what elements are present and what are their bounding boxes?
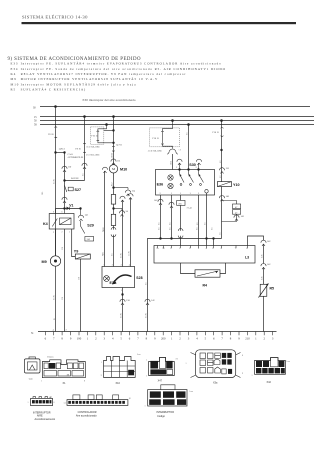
- control unit E30: [102, 265, 143, 293]
- svg-text:1 N: 1 N: [78, 277, 80, 281]
- svg-text:5: 5: [121, 290, 122, 292]
- svg-text:34: 34: [126, 211, 129, 213]
- svg-text:R5: R5: [270, 287, 275, 291]
- svg-text:5: 5: [69, 232, 70, 234]
- svg-text:M9: M9: [11, 77, 17, 81]
- svg-text:Y9: Y9: [74, 250, 79, 254]
- svg-text:7: 7: [137, 336, 139, 340]
- svg-text:Y10: Y10: [233, 183, 240, 187]
- legend connector: interruptor codigo: [145, 385, 193, 418]
- svg-text:R5: R5: [11, 88, 17, 92]
- junction on bus 58 (fuse box A): [105, 123, 108, 126]
- wire M9 to ground: [55, 266, 57, 331]
- connector 142 lower right: [261, 264, 271, 285]
- svg-text:131: 131: [117, 161, 121, 163]
- svg-text:2: 2: [264, 336, 266, 340]
- svg-text:30: 30: [33, 106, 36, 109]
- svg-text:134: 134: [132, 191, 136, 193]
- connector 140: [219, 187, 229, 239]
- svg-text:0.5: 0.5: [197, 228, 199, 231]
- svg-text:3: 3: [198, 248, 199, 250]
- svg-text:5-xx: 5-xx: [137, 354, 141, 356]
- svg-text:F10 15: F10 15: [213, 132, 220, 134]
- svg-text:M10: M10: [120, 168, 127, 172]
- svg-text:6: 6: [62, 212, 63, 214]
- svg-text:1: 1: [186, 363, 187, 365]
- wire x=130.5 to E30 with connector: [128, 194, 133, 267]
- svg-text:16: 16: [129, 398, 131, 400]
- motor M10: [109, 165, 127, 173]
- wire E36 to L3 (x=171.5) with connector: [169, 195, 174, 239]
- junction on bus 30: [54, 105, 57, 108]
- svg-text:7A: 7A: [156, 247, 159, 250]
- wire R5 to ground: [263, 296, 265, 331]
- svg-text:E33: E33: [11, 62, 19, 66]
- svg-text:16L: 16L: [42, 191, 44, 195]
- svg-text:3: 3: [272, 336, 274, 340]
- connector X10: [101, 354, 141, 385]
- svg-text:K4: K4: [11, 72, 17, 76]
- solenoid Y9: [74, 250, 91, 260]
- svg-text:L3: L3: [245, 256, 249, 260]
- svg-text:X3a: X3a: [213, 382, 218, 385]
- wire x=180.5 through ref box 205: [177, 195, 193, 246]
- resistor R4 loop under L3: [181, 263, 226, 288]
- svg-text:1: 1: [255, 336, 257, 340]
- svg-text:R12: R12: [111, 183, 113, 186]
- wire track x=55.5 upper: [55, 107, 57, 128]
- blower switch E36: [156, 168, 215, 195]
- svg-text:2: 2: [160, 193, 162, 195]
- svg-text:X10: X10: [116, 382, 121, 385]
- svg-text:142: 142: [241, 216, 245, 218]
- wire K4 mid to ground: [64, 229, 66, 332]
- connector 142 upper right: [261, 240, 271, 263]
- svg-text:5-xx: 5-xx: [189, 391, 193, 393]
- svg-text:7M10: 7M10: [103, 227, 105, 232]
- svg-text:Interruptor FE. Sonda de tempe: Interruptor FE. Sonda de temperatura del…: [21, 67, 226, 71]
- svg-text:1A: 1A: [64, 402, 67, 405]
- svg-text:1: 1: [171, 336, 173, 340]
- svg-text:2: 2: [179, 336, 181, 340]
- svg-text:Acondicionamiento: Acondicionamiento: [35, 418, 56, 421]
- svg-text:0.5: 0.5: [197, 223, 199, 226]
- svg-text:190: 190: [77, 336, 82, 340]
- svg-text:AUTOMOVILES: AUTOMOVILES: [68, 156, 85, 159]
- solenoid valve Y10: [217, 182, 239, 188]
- svg-text:E30 interruptor del aire acond: E30 interruptor del aire acondicionado: [83, 98, 136, 102]
- svg-text:14 F11: 14 F11: [116, 145, 123, 147]
- wire track x=55.5 middle: [55, 137, 57, 256]
- wire x=122.5 to E30 with connector: [120, 196, 125, 266]
- svg-text:0.5: 0.5: [220, 161, 222, 164]
- svg-text:1: 1: [101, 362, 102, 364]
- connector X1: [41, 357, 85, 385]
- svg-text:5: 5: [170, 248, 171, 250]
- svg-text:F10 15: F10 15: [153, 138, 160, 140]
- resistor (fan series) upper: [111, 195, 115, 205]
- wire x=198.5 to L3: [198, 195, 200, 246]
- svg-text:X1: X1: [63, 382, 67, 385]
- svg-text:15: 15: [34, 116, 37, 119]
- svg-text:BAULE: BAULE: [71, 177, 79, 180]
- svg-text:1: 1: [252, 375, 253, 377]
- svg-text:5C3 SOLAIRE: 5C3 SOLAIRE: [86, 146, 100, 149]
- svg-text:0.5 N: 0.5 N: [145, 313, 147, 318]
- svg-text:0.5: 0.5: [82, 174, 84, 177]
- svg-text:2: 2: [196, 167, 198, 169]
- fuse box A dashed: [91, 125, 114, 145]
- svg-text:14F2.2: 14F2.2: [59, 149, 66, 151]
- diode V1: [67, 204, 74, 210]
- svg-text:4: 4: [196, 336, 198, 340]
- svg-text:SUFLANTÃ4 C RESISTENCIA): SUFLANTÃ4 C RESISTENCIA): [21, 87, 87, 92]
- junction on bus 15 (track M10): [112, 115, 115, 118]
- section title: [8, 57, 141, 62]
- svg-text:2: 2: [112, 265, 113, 267]
- svg-text:RELAY VENTILATORS27 INTERRUPTO: RELAY VENTILATORS27 INTERRUPTOR. Y9 FAN …: [21, 72, 187, 76]
- svg-text:0.5: 0.5: [186, 133, 188, 136]
- svg-text:X42: X42: [267, 381, 272, 384]
- svg-text:Aire acondicionado: Aire acondicionado: [76, 414, 97, 417]
- bus 50: [34, 120, 314, 123]
- svg-text:0.35: 0.35: [261, 277, 263, 281]
- inline fuse on track x=113.5: [112, 146, 114, 151]
- relay K4: [43, 209, 74, 234]
- track ref box 242: [85, 237, 94, 242]
- svg-text:F8 16: F8 16: [76, 148, 82, 150]
- svg-text:0.5: 0.5: [220, 176, 222, 179]
- connector X47: [146, 357, 178, 382]
- fuse box B dashed: [150, 119, 180, 148]
- svg-text:CONTROLADOR: CONTROLADOR: [78, 411, 97, 414]
- svg-text:1.5 N: 1.5 N: [129, 251, 131, 256]
- svg-text:3: 3: [198, 193, 200, 195]
- svg-text:CAJA: CAJA: [68, 153, 74, 156]
- wire K4 right to Y9: [72, 229, 76, 257]
- wire bend BAULE: [63, 177, 84, 182]
- connector 131: [111, 159, 121, 165]
- node row V1: [56, 207, 82, 209]
- svg-text:1: 1: [176, 167, 178, 169]
- svg-text:205: 205: [178, 203, 182, 205]
- header: [22, 15, 297, 25]
- svg-text:2: 2: [189, 248, 190, 250]
- svg-text:2: 2: [95, 336, 97, 340]
- svg-text:F16 15: F16 15: [91, 135, 98, 137]
- junction dot x=64.5 y=152.5: [63, 151, 65, 153]
- svg-text:0.5: 0.5: [145, 283, 147, 286]
- junction on bus 15 (track F8): [83, 115, 86, 118]
- connector X42: [252, 358, 290, 384]
- connector 143: [78, 209, 88, 221]
- svg-text:6: 6: [221, 248, 222, 250]
- svg-text:3: 3: [121, 265, 122, 267]
- junction row y=238.5: [148, 237, 222, 239]
- wire bus58 to E36: [188, 125, 190, 170]
- svg-text:Interruptor FE. SUFLANTÃR4 ter: Interruptor FE. SUFLANTÃR4 termoior EVAP…: [21, 61, 222, 66]
- svg-text:2: 2: [62, 232, 63, 234]
- junction on bus 58 (track E36): [187, 123, 190, 126]
- svg-text:M: M: [112, 167, 115, 171]
- svg-text:7: 7: [235, 248, 236, 250]
- svg-text:6: 6: [213, 336, 215, 340]
- wire Y9 to ground: [80, 259, 82, 332]
- wire K4 left to M9: [55, 229, 57, 256]
- legend list: [11, 61, 226, 92]
- wire track x=84.5: [84, 117, 86, 181]
- svg-text:1 N: 1 N: [62, 247, 64, 251]
- resistor (fan series) lower: [111, 214, 115, 225]
- svg-text:8: 8: [230, 336, 232, 340]
- svg-text:0.5: 0.5: [211, 228, 213, 231]
- motor M9: [42, 256, 61, 266]
- svg-text:7: 7: [146, 360, 147, 362]
- big connector on x=172.5: [167, 149, 181, 170]
- label CAJA DERIVACION: [68, 153, 85, 159]
- svg-text:1: 1: [190, 193, 192, 195]
- svg-text:8: 8: [53, 212, 54, 214]
- svg-text:1: 1: [104, 265, 105, 267]
- svg-text:142: 142: [151, 300, 155, 302]
- svg-text:16122: 16122: [112, 153, 114, 158]
- svg-text:58: 58: [34, 124, 37, 127]
- svg-text:1: 1: [145, 406, 146, 408]
- svg-text:1: 1: [180, 193, 182, 195]
- legend connector: interruptor aire: [28, 397, 56, 421]
- svg-text:8: 8: [84, 381, 85, 383]
- svg-text:+2: +2: [178, 150, 181, 152]
- svg-text:8: 8: [146, 336, 148, 340]
- bus 58: [34, 124, 314, 127]
- svg-text:F6 20: F6 20: [48, 134, 54, 136]
- junction dot x=55.5 y=152.5: [54, 151, 56, 153]
- svg-text:4: 4: [129, 265, 130, 267]
- fuse F6: [48, 127, 57, 138]
- svg-text:0.5: 0.5: [169, 223, 171, 226]
- track ref boxes d7: [222, 201, 245, 222]
- svg-text:9: 9: [70, 336, 72, 340]
- svg-text:0.5 N: 0.5 N: [120, 253, 122, 258]
- junction dot y=208.5 + branch connector 34: [112, 204, 128, 216]
- svg-text:X47: X47: [158, 380, 163, 383]
- svg-text:1.5: 1.5: [219, 233, 221, 236]
- svg-text:6: 6: [129, 336, 131, 340]
- svg-text:V1: V1: [69, 204, 73, 208]
- svg-text:8: 8: [61, 336, 63, 340]
- svg-text:7.143: 7.143: [187, 208, 193, 210]
- svg-text:1: 1: [28, 402, 29, 404]
- svg-text:158: 158: [126, 300, 130, 302]
- svg-text:1: 1: [87, 336, 89, 340]
- svg-text:5-xx: 5-xx: [286, 361, 290, 363]
- connector X3a: [186, 350, 244, 385]
- svg-text:8: 8: [246, 248, 247, 250]
- svg-text:1612: 1612: [170, 161, 172, 165]
- svg-text:9: 9: [101, 375, 102, 377]
- wire to second track: [56, 152, 65, 154]
- svg-text:0.5: 0.5: [169, 228, 171, 231]
- switch S29: [81, 221, 94, 234]
- svg-text:110: 110: [68, 167, 72, 169]
- wire track x=113.5 upper: [113, 117, 115, 147]
- svg-text:Interruptor MOTOR SUFLANTÃS29: Interruptor MOTOR SUFLANTÃS29 doble (alt…: [21, 81, 137, 86]
- wire E36 to L3 (x=160.5) with connector 142: [154, 195, 163, 239]
- svg-text:S27: S27: [75, 188, 82, 192]
- wire E30 bottom to ground: [120, 288, 131, 332]
- junction on bus 50 (track Y10): [220, 119, 223, 122]
- svg-text:0.35: 0.35: [261, 255, 263, 259]
- bottom row: connector housing view: [24, 357, 40, 381]
- svg-text:31: 31: [31, 332, 34, 335]
- svg-text:1: 1: [146, 376, 147, 378]
- svg-text:142: 142: [267, 241, 271, 243]
- svg-text:SISTEMA ELÉCTRICO 14-30: SISTEMA ELÉCTRICO 14-30: [22, 15, 88, 20]
- connector 110: [62, 166, 72, 172]
- wire below M10: [113, 173, 115, 195]
- svg-text:Codigo: Codigo: [157, 415, 165, 418]
- svg-text:S29: S29: [87, 224, 94, 228]
- svg-text:E36: E36: [157, 182, 164, 186]
- legend connector: controlador: [64, 395, 131, 418]
- svg-text:3: 3: [188, 336, 190, 340]
- bus 30: [33, 106, 310, 109]
- svg-text:1: 1: [171, 193, 173, 195]
- svg-text:ACE SOLAIRE: ACE SOLAIRE: [148, 149, 163, 152]
- svg-text:M9: M9: [42, 260, 47, 264]
- svg-text:1: 1: [179, 248, 180, 250]
- svg-text:4: 4: [206, 248, 207, 250]
- svg-text:5: 5: [205, 336, 207, 340]
- fuse F10 track x=221.5: [213, 121, 224, 182]
- svg-text:0.5 N: 0.5 N: [54, 295, 56, 300]
- svg-text:M10: M10: [11, 82, 20, 86]
- switch S27: [65, 186, 82, 193]
- svg-text:Palanca: Palanca: [47, 357, 53, 359]
- wire L3 right to R5 track: [248, 236, 264, 246]
- svg-text:4: 4: [53, 232, 54, 234]
- svg-text:7: 7: [53, 336, 55, 340]
- wire track x=64.5: [64, 153, 66, 209]
- svg-text:0.5: 0.5: [111, 254, 113, 257]
- rotated wire labels: [42, 133, 263, 321]
- wire x=104.5 to E30: [102, 167, 107, 266]
- svg-text:5-1: 5-1: [176, 359, 179, 361]
- svg-text:6: 6: [54, 402, 55, 404]
- svg-text:4: 4: [112, 336, 114, 340]
- svg-text:S28: S28: [136, 276, 142, 280]
- svg-text:0.5 N: 0.5 N: [54, 179, 56, 184]
- break connector on x=113.5: [111, 226, 116, 267]
- svg-text:8: 8: [242, 355, 243, 357]
- svg-text:1: 1: [41, 381, 42, 383]
- connector below S27: [62, 197, 67, 203]
- connector 126: [219, 168, 229, 174]
- wire x=206.5 to junction row: [206, 193, 208, 246]
- svg-text:R4: R4: [203, 284, 208, 288]
- connector on track x=84.5: [82, 163, 87, 169]
- svg-text:140: 140: [226, 196, 230, 198]
- svg-text:7M1: 7M1: [103, 252, 105, 256]
- svg-text:126: 126: [226, 168, 230, 170]
- svg-text:142: 142: [267, 264, 271, 266]
- svg-text:5C3 SOLAIRE: 5C3 SOLAIRE: [86, 154, 100, 157]
- bus 15: [34, 116, 314, 119]
- svg-text:50: 50: [34, 120, 37, 123]
- svg-text:1 N: 1 N: [62, 297, 64, 301]
- svg-text:3: 3: [104, 336, 106, 340]
- svg-text:INTERRUPTOR: INTERRUPTOR: [156, 411, 174, 414]
- svg-text:5: 5: [120, 336, 122, 340]
- svg-text:0.5: 0.5: [205, 223, 207, 226]
- svg-text:143: 143: [85, 215, 89, 217]
- svg-text:210: 210: [245, 336, 250, 340]
- svg-text:Con: Con: [29, 379, 34, 381]
- svg-text:200: 200: [161, 336, 166, 340]
- svg-text:5: 5: [212, 248, 213, 250]
- svg-text:0.5: 0.5: [158, 228, 160, 231]
- wire row to ground (x=147.5): [145, 239, 155, 332]
- up connectors from E36 top: [176, 159, 202, 169]
- evaporator unit L3: [154, 246, 255, 264]
- svg-text:MOTOR INTERRUPTOR VENTILATORS2: MOTOR INTERRUPTOR VENTILATORS28 SUFLANTÃ…: [21, 76, 159, 81]
- svg-text:0.5: 0.5: [158, 223, 160, 226]
- junction dot + branch connector 134: [112, 186, 135, 195]
- svg-text:9: 9: [154, 336, 156, 340]
- thermistor R5: [259, 284, 275, 298]
- svg-text:6: 6: [45, 336, 47, 340]
- fuse F8: [76, 143, 86, 152]
- ground bus 31 with track ruler: [31, 332, 277, 341]
- svg-text:7: 7: [221, 336, 223, 340]
- wire x=213.5 to L3: [213, 239, 215, 246]
- svg-text:E34: E34: [11, 67, 19, 71]
- svg-text:9: 9: [242, 373, 243, 375]
- svg-text:7B: 7B: [162, 248, 165, 250]
- svg-text:0.5 N: 0.5 N: [121, 313, 123, 318]
- svg-text:9: 9: [238, 336, 240, 340]
- svg-text:K4: K4: [43, 222, 49, 226]
